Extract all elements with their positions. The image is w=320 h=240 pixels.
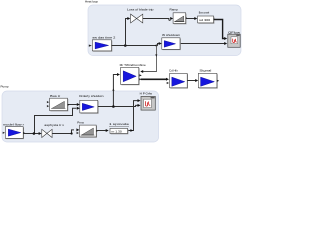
scope1 QFlow: [228, 34, 240, 47]
gain W1: [162, 38, 181, 50]
arrow into scope2 in2: [138, 104, 141, 107]
arrow into scope1 in1: [224, 37, 227, 40]
constant K1: [110, 128, 128, 134]
svg-text:Signal: Signal: [199, 69, 212, 73]
gain A1: [92, 40, 112, 52]
arrow into V1: [127, 17, 130, 20]
port B1 out stub: [214, 19, 215, 20]
wire G2 out to valve V2: [23, 133, 39, 135]
port U1 out2 mark: [139, 74, 142, 76]
arrow into scope1 in2: [224, 42, 227, 45]
node junction2: [33, 132, 36, 135]
arrow into W1: [159, 42, 162, 45]
svg-text:Ramp: Ramp: [170, 7, 179, 11]
wire branch to valve V1: [126, 19, 128, 46]
arrow into R1: [170, 17, 173, 20]
port A1 input: [89, 45, 92, 47]
port R3 in2 mark: [77, 132, 79, 134]
arrow into C1 in1: [166, 78, 169, 81]
node junction4: [71, 132, 73, 134]
port C2 out mark: [217, 80, 219, 82]
gain G1: [80, 100, 99, 113]
gain G2: [5, 127, 24, 139]
wire C1 to C2: [187, 80, 195, 82]
arrow into K1: [106, 129, 109, 132]
arrow into V2: [39, 132, 42, 135]
port R2 in1 mark: [47, 101, 49, 103]
arrow into B1: [194, 17, 197, 20]
wire U1 input from below: [113, 75, 117, 107]
junction blob on panel edge: [155, 54, 157, 56]
arrow into R3 in1: [76, 128, 79, 131]
wire A1 out: [112, 45, 158, 47]
arrow into C2: [195, 79, 198, 82]
node junction W drop: [155, 44, 157, 46]
port R1 out stub: [186, 18, 187, 19]
svg-text:W shutdown: W shutdown: [162, 33, 181, 37]
port G2 out stub: [23, 132, 24, 133]
wire R3 to const K1: [96, 130, 106, 132]
node junction3: [112, 105, 115, 108]
svg-text:model flow r: model flow r: [3, 123, 24, 127]
port G2 input mark: [3, 132, 5, 134]
constant B1: [198, 16, 215, 24]
arrow into U1 left input: [117, 73, 120, 76]
svg-text:sw das time 2: sw das time 2: [92, 36, 116, 40]
wire R2 to G1 in1: [68, 104, 77, 106]
port C1 in2 mark: [167, 82, 169, 84]
svg-text:m 1.30: m 1.30: [112, 130, 123, 134]
gain C1: [170, 73, 188, 88]
arrow into G1 in2: [77, 107, 80, 110]
wire V2 to ramp R3 hook: [52, 130, 74, 134]
arrow into G1 in1: [77, 103, 80, 106]
port R2 in2 mark: [47, 105, 49, 107]
wire from junction2 up into G1 in2: [35, 108, 77, 133]
wire hook into W1: [158, 44, 159, 46]
valve V1: [131, 14, 143, 23]
panel lower area: [2, 91, 159, 142]
svg-text:Bus tr: Bus tr: [50, 94, 60, 98]
ramp source R3: [80, 125, 98, 138]
panel upper area: [88, 5, 241, 56]
svg-text:Bus crash: Bus crash: [199, 11, 210, 15]
wire W1 to scope1 in2: [180, 43, 225, 45]
arrow on K1 out wire: [130, 129, 133, 132]
svg-text:Orderly shutdwn: Orderly shutdwn: [79, 94, 104, 98]
ramp source R2: [50, 98, 69, 111]
svg-text:Pma: Pma: [77, 121, 84, 125]
arrow into scope2 in1: [138, 99, 141, 102]
scope2: [141, 96, 155, 110]
svg-text:Pump: Pump: [1, 84, 9, 88]
junction blob at panel boundary: [112, 88, 114, 91]
wire G1 out to scope2 in2: [98, 105, 138, 106]
wire R1 to B1: [186, 18, 195, 20]
svg-text:1 spmode: 1 spmode: [109, 122, 130, 126]
port U1 out3 mark: [139, 78, 142, 80]
port R3 out stub: [96, 130, 97, 131]
arrow into U1 right port: [140, 70, 143, 73]
node junction1: [124, 44, 127, 47]
ramp source R1: [173, 13, 186, 24]
svg-text:Cd Hfx: Cd Hfx: [169, 69, 178, 73]
wire drop from main line into lower region: [143, 46, 157, 72]
wire V1 to ramp R1: [143, 19, 171, 21]
svg-text:asphyxia tr v: asphyxia tr v: [44, 123, 64, 127]
svg-text:Mr TWindCombine: Mr TWindCombine: [120, 63, 146, 67]
port R2 out stub: [68, 104, 69, 105]
svg-text:QFlow: QFlow: [228, 30, 241, 34]
svg-text:Heat loop: Heat loop: [85, 0, 98, 4]
wire B1 to scope1 in1: [214, 20, 225, 39]
valve V2: [42, 129, 52, 137]
svg-text:Loss of blade trip: Loss of blade trip: [127, 8, 154, 12]
wire const K1 up to scope2 in1: [128, 101, 138, 131]
svg-text:H P Grfw: H P Grfw: [140, 92, 153, 96]
gain U1 wind drive: [121, 67, 140, 85]
wire U1 out3 to C1 in1: [141, 78, 166, 80]
svg-text:sd 300: sd 300: [199, 18, 211, 22]
gain C2: [198, 73, 217, 88]
